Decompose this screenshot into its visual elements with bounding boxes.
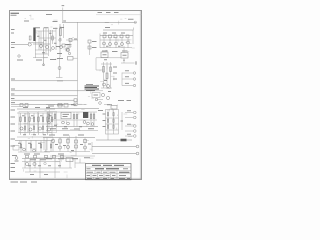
resistor R204: [120, 35, 123, 38]
V1 stage wires: [33, 28, 56, 65]
resistor R321: [25, 104, 28, 107]
labels above bottom row: [24, 153, 64, 155]
bias box U3: [121, 46, 128, 58]
power stage row: [43, 136, 95, 156]
labels below Q row: [102, 50, 128, 53]
resistor R409: [64, 104, 68, 108]
resistor R202: [109, 35, 112, 38]
terminal strip TB1: [68, 57, 78, 61]
mid right cluster wires: [96, 62, 112, 88]
resistor R210: [110, 67, 112, 72]
transistor Q203: [115, 42, 118, 45]
V2 stage wires: [60, 24, 65, 57]
transistor Q202: [109, 43, 112, 46]
power row labels: [46, 135, 90, 159]
wire stub Q105: [43, 64, 45, 66]
resistor R311: [20, 144, 21, 148]
input part: [15, 157, 19, 161]
resistor R401: [59, 139, 61, 143]
left edge labels lower: [11, 110, 16, 146]
wire L-turn: [78, 104, 87, 106]
wire row90: [92, 91, 103, 101]
resistor R306: [42, 117, 43, 122]
transistor Q304: [47, 128, 50, 131]
resistor R502: [107, 119, 108, 122]
transistor Q305: [23, 148, 26, 151]
resistor R304: [33, 117, 34, 122]
resistor R603: [45, 155, 48, 158]
resistor R301: [20, 117, 21, 122]
meter box M1: [92, 93, 100, 98]
resistor R307: [47, 117, 48, 122]
resistor R403: [84, 140, 87, 143]
caps C403 C404: [73, 112, 78, 127]
labels mid right: [113, 67, 117, 79]
value labels above V1 stage: [35, 27, 58, 30]
terminal box TB2: [66, 158, 75, 169]
labels above lower-left: [23, 107, 50, 109]
diode CR101: [62, 44, 65, 47]
trimmer R110: [17, 55, 23, 60]
transistor Q306: [33, 149, 36, 152]
regulator block U4: [61, 112, 71, 125]
capacitor C201: [121, 61, 137, 64]
input jack J1: [11, 43, 31, 46]
coupling network wires: [66, 38, 78, 48]
transistor Q101: [40, 45, 43, 48]
node B+ top bus: [62, 21, 137, 22]
capacitor C203: [106, 73, 108, 79]
resistor R408: [58, 104, 62, 108]
resistor R501: [107, 113, 108, 116]
resistor R503: [107, 125, 108, 128]
resistor R314: [50, 144, 51, 148]
transistor Q302: [29, 128, 32, 131]
transistor Q104: [67, 49, 70, 52]
ladder top box: [107, 105, 117, 109]
resistor R504: [113, 113, 114, 116]
title block feed wire: [75, 159, 86, 164]
fuse F1: [96, 139, 132, 142]
diode CR102: [66, 48, 69, 51]
note below frame: [11, 181, 38, 183]
resistor R108: [88, 43, 97, 55]
diode bank: [75, 140, 78, 148]
title text: [87, 165, 131, 178]
resistor bank wires: [21, 113, 53, 135]
bus end resistors: [74, 99, 77, 106]
rail wires right: [92, 145, 139, 155]
wire stub top-left: [24, 15, 52, 22]
capacitor C103: [29, 36, 31, 40]
lower left bus: [17, 109, 55, 137]
value labels scattered upper: [37, 33, 121, 91]
resistor R601: [26, 155, 29, 158]
power transistor Q401: [51, 139, 55, 143]
resistor R201: [103, 35, 106, 38]
power transistor Q402: [58, 146, 61, 149]
transistor Q105: [52, 47, 55, 50]
transistor Q206: [103, 83, 106, 86]
lamp DS1: [128, 19, 137, 23]
left bus labels: [11, 79, 15, 103]
revision table: [96, 12, 142, 14]
transistor Q207: [107, 85, 110, 88]
transistor Q301: [20, 127, 23, 130]
value labels scattered lower: [18, 116, 91, 175]
resistor R313: [40, 144, 41, 148]
resistor R604: [53, 155, 56, 158]
cell box CH1: [19, 112, 28, 133]
left bus wires: [11, 81, 92, 105]
transistor Q102: [46, 46, 49, 49]
transistor Q205: [127, 41, 130, 44]
transistor Q103: [60, 46, 63, 49]
relay K1: [83, 112, 89, 125]
labels center bottom: [48, 105, 103, 111]
stage output text: [36, 54, 63, 61]
driver Q106: [56, 57, 63, 81]
capacitor C202: [103, 67, 105, 73]
transistor Q601: [25, 162, 28, 165]
labels row: [12, 156, 46, 160]
transistor Q108: [68, 52, 70, 54]
capacitor C102: [59, 29, 61, 36]
resistor R505: [113, 119, 114, 122]
resistor R312: [30, 144, 31, 148]
resistor R203: [114, 35, 117, 38]
transistor Q403: [66, 145, 69, 148]
connector P2 pins: [122, 71, 136, 87]
resistor R402: [67, 139, 69, 143]
lower-left second row: [15, 141, 53, 159]
resistor R302: [24, 117, 25, 122]
cell box CH2: [29, 112, 38, 133]
bias box U2: [101, 52, 108, 58]
resistor R205: [126, 35, 129, 38]
resistor R506: [113, 125, 114, 128]
transistor Q204: [121, 43, 124, 46]
labels above R row: [103, 32, 125, 34]
transistor Q107: [59, 39, 61, 41]
transistor Q602: [33, 162, 36, 165]
node bus x77 vertical: [77, 22, 79, 104]
left edge pin labels upper: [11, 30, 15, 48]
label P4: [71, 104, 76, 106]
transistor Q404: [83, 146, 86, 149]
cell box CH4: [48, 112, 57, 133]
center bottom bus: [46, 105, 99, 131]
top right amp cluster: [100, 30, 133, 48]
title block: [86, 164, 132, 180]
capacitor C402: [54, 112, 56, 127]
capacitor C301: [24, 126, 25, 130]
labels V2: [56, 45, 70, 47]
label C105: [53, 21, 58, 23]
capacitor C401: [48, 112, 51, 127]
wire row57: [96, 58, 125, 70]
connector P3 pins: [125, 111, 136, 138]
transistor Q209: [106, 96, 109, 99]
resistor R102: [52, 36, 54, 40]
notes text block: [85, 84, 100, 90]
left edge labels bottom: [11, 164, 16, 172]
labels under center row: [50, 128, 94, 130]
wire stub left: [11, 106, 20, 108]
capacitor C101: [33, 28, 35, 42]
capacitor C303: [42, 126, 43, 130]
resistor R107: [88, 40, 97, 43]
resistor R305: [38, 117, 39, 122]
ladder side labels: [103, 114, 106, 127]
wire tie y42.5: [28, 42, 44, 44]
resistor R602: [34, 155, 37, 158]
lower right mid bits: [97, 100, 131, 105]
resistor ladder right: [106, 110, 119, 141]
boxed label note: [13, 146, 19, 151]
resistor R308: [51, 117, 52, 122]
zone marker 5: [62, 6, 65, 23]
resistor R320: [20, 104, 23, 107]
cell box CH3: [38, 112, 47, 133]
border frame: [10, 11, 142, 180]
resistor R605: [61, 155, 64, 158]
transistor Q208: [101, 93, 104, 96]
bottom amp cluster: [22, 159, 78, 179]
transistor Q303: [38, 127, 41, 130]
resistor R303: [29, 117, 30, 122]
drawing number stamp: [11, 13, 20, 15]
transistor Q201: [103, 42, 106, 45]
capacitor C302: [33, 126, 34, 130]
wire bus 2: [103, 28, 134, 31]
wire x122 lower: [121, 112, 124, 130]
transistor Q603: [44, 162, 46, 164]
caps right group: [90, 112, 95, 127]
